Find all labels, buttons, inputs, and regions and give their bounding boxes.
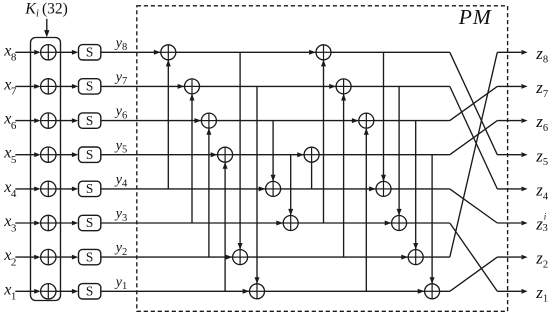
svg-text:S: S — [86, 79, 93, 94]
svg-text:PM: PM — [458, 5, 492, 29]
svg-text:S: S — [86, 147, 93, 162]
svg-text:Ki (32): Ki (32) — [24, 0, 68, 19]
svg-text:zi3: zi3 — [535, 212, 547, 235]
svg-text:S: S — [86, 113, 93, 128]
svg-text:S: S — [86, 249, 93, 264]
svg-text:S: S — [86, 181, 93, 196]
svg-text:S: S — [86, 215, 93, 230]
svg-text:S: S — [86, 45, 93, 60]
svg-text:S: S — [86, 284, 93, 299]
